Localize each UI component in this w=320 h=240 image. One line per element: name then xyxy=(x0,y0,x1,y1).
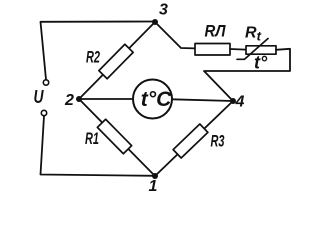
terminal lower (source U) xyxy=(41,110,46,115)
resistor RL (line resistance) xyxy=(195,44,230,56)
wire Rt right, down, left and to node 4 xyxy=(204,49,290,101)
wire node 1 to node 4 xyxy=(155,101,233,176)
svg-text:U: U xyxy=(34,87,45,107)
svg-text:1: 1 xyxy=(149,178,158,195)
svg-text:RЛ: RЛ xyxy=(205,22,226,41)
svg-text:t°C: t°C xyxy=(141,88,172,111)
svg-text:R1: R1 xyxy=(85,129,99,148)
terminal upper (source U) xyxy=(43,80,48,85)
svg-text:Rt: Rt xyxy=(245,25,262,44)
node 4 xyxy=(230,98,236,104)
svg-text:R3: R3 xyxy=(211,132,225,151)
node 3 xyxy=(152,19,158,25)
svg-text:2: 2 xyxy=(64,92,74,109)
wire node 2 to node 3 xyxy=(79,22,155,99)
resistor R2 xyxy=(99,44,133,78)
thermistor strike line xyxy=(237,39,268,60)
wire from lower terminal down and right to node 1 xyxy=(41,116,156,176)
wire node 3 to resistor RL xyxy=(155,22,195,48)
svg-text:R2: R2 xyxy=(86,48,100,67)
thermistor Rt body xyxy=(246,46,276,54)
wire from node 3 left and down to upper terminal xyxy=(41,22,156,80)
svg-text:t°: t° xyxy=(254,53,268,73)
svg-text:3: 3 xyxy=(159,2,168,19)
node 1 xyxy=(152,173,158,179)
wire meter to node 4 xyxy=(172,99,233,101)
node 2 xyxy=(76,96,82,102)
wire RL to Rt xyxy=(230,48,246,51)
resistor R3 xyxy=(173,124,208,158)
wire node 2 to node 1 xyxy=(79,99,155,176)
wire node 2 to meter xyxy=(79,98,133,100)
resistor R1 xyxy=(97,119,131,153)
meter (temperature indicator) xyxy=(133,80,172,119)
svg-text:4: 4 xyxy=(235,94,245,111)
